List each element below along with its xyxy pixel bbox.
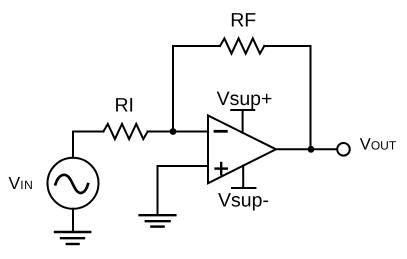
svg-text:Vsup+: Vsup+: [217, 88, 273, 110]
ground at non-inverting input: [140, 215, 176, 226]
svg-text:VIN: VIN: [9, 173, 34, 193]
wire non-inverting input: [158, 166, 209, 215]
resistor RI: [103, 124, 147, 139]
op-amp plus sign: [216, 163, 227, 174]
svg-text:VOUT: VOUT: [360, 136, 397, 154]
wire source to ground: [72, 209, 74, 232]
output terminal circle: [337, 143, 350, 156]
op-amp minus sign: [215, 130, 226, 133]
wire inverting input: [148, 131, 208, 133]
wire output: [276, 148, 337, 150]
svg-text:RI: RI: [114, 95, 134, 117]
junction node at output: [308, 146, 315, 153]
wire input left segment: [73, 132, 103, 158]
ground under source: [55, 232, 90, 244]
source V1 circle: [48, 158, 99, 209]
Vsup- pin: [232, 166, 255, 188]
svg-text:Vsup-: Vsup-: [218, 189, 269, 211]
wire feedback top-right segment: [264, 46, 310, 149]
Vsup+ pin: [231, 110, 254, 133]
junction node at inverting input: [170, 128, 177, 135]
svg-text:RF: RF: [230, 10, 256, 32]
source V1 sine wave: [55, 175, 88, 193]
op-amp U1 triangle: [208, 116, 276, 184]
resistor RF: [220, 38, 264, 53]
wire feedback top-left segment: [173, 46, 220, 132]
